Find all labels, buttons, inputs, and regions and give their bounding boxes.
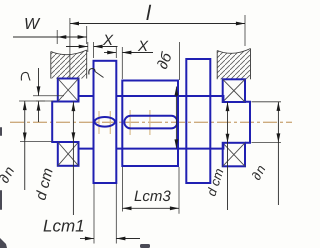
shaft journal left <box>52 102 58 143</box>
keyway ellipse on hub C section <box>95 117 115 127</box>
diameter d cm left dimension <box>32 102 75 216</box>
bearing box upper left <box>58 79 79 102</box>
bearing cross lower left <box>58 142 79 166</box>
dimension Lcm1 <box>43 184 140 244</box>
svg-text:Lcm1: Lcm1 <box>43 217 85 236</box>
dimension l <box>70 2 245 78</box>
dimension Lcm3 <box>122 167 179 214</box>
bearing cross upper right <box>223 79 245 102</box>
svg-text:Lcm3: Lcm3 <box>134 188 171 205</box>
svg-text:W: W <box>24 16 41 33</box>
diameter db dimension arrows <box>175 87 179 149</box>
bearing cross lower right <box>223 143 245 167</box>
diameter dn left dimension <box>0 101 52 190</box>
hub F right <box>186 59 210 183</box>
svg-text:X: X <box>137 38 149 55</box>
svg-text:X: X <box>102 32 114 49</box>
dimension x gap 1 <box>66 32 118 58</box>
shaft right journal and end <box>245 102 250 143</box>
diameter dn right dimension <box>248 102 281 205</box>
support right hatched <box>217 49 250 80</box>
keyway construction marks tan <box>99 110 150 135</box>
fillet radius r left <box>21 68 64 122</box>
bearing cross upper left <box>58 79 79 102</box>
dimension W <box>13 16 87 44</box>
support left hatched <box>51 50 87 79</box>
centerline axis <box>10 121 292 123</box>
shaft main body outline <box>79 96 224 149</box>
keyway slot on hub D section <box>124 116 177 129</box>
hub C left gear <box>94 61 117 183</box>
dimension x gap 2 <box>104 38 153 79</box>
hub D middle gear <box>122 81 178 167</box>
fillet radius r right <box>89 69 104 78</box>
diameter db label <box>154 42 180 80</box>
scan edge smudges <box>0 127 150 248</box>
bearing box lower right <box>223 143 245 167</box>
diameter d cm right dimension <box>204 102 230 210</box>
bearing box lower left <box>58 142 79 166</box>
bearing box upper right <box>223 79 245 102</box>
